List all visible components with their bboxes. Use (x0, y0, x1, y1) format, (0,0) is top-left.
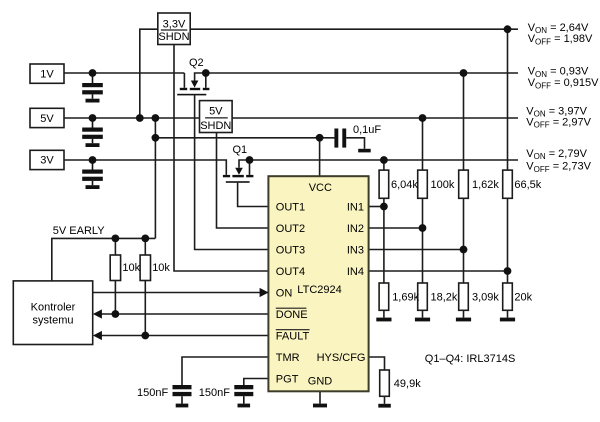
svg-text:FAULT: FAULT (276, 330, 310, 342)
ground C5 (238, 404, 251, 408)
svg-text:100k: 100k (431, 179, 455, 191)
transistor Q2 channel dashes (180, 88, 210, 90)
wire TMR to C4 (182, 357, 268, 385)
regulator U2 3,3V SHDN (158, 13, 190, 45)
junction FAULT pull-up (141, 332, 149, 340)
capacitor C1 1V bypass (82, 75, 103, 99)
junction rail4 to divider (380, 156, 388, 164)
ground C4 (176, 404, 189, 408)
junction DONE pull-up (112, 310, 120, 318)
resistor R7 1,69k (379, 283, 389, 310)
svg-text:OUT3: OUT3 (276, 244, 305, 256)
source box 1V (30, 64, 64, 83)
ground R10 (500, 318, 515, 322)
svg-text:3,3V: 3,3V (163, 18, 186, 30)
wire 5V rail (64, 117, 200, 119)
source box 5V (30, 108, 64, 127)
FAULT overline (276, 329, 310, 331)
svg-text:Q2: Q2 (189, 57, 204, 69)
node IN2 (419, 224, 427, 232)
ground R7 (376, 318, 391, 322)
junction Q1 drain (246, 156, 254, 164)
wire pull-up 10k R5 to DONE (114, 238, 116, 255)
resistor R1 6,04k (379, 170, 389, 198)
resistor R4 66,5k (503, 170, 513, 198)
svg-text:systemu: systemu (33, 315, 74, 327)
transistor Q1 channel dashes (223, 175, 254, 177)
transistor Q1 arrow stub (239, 160, 250, 168)
wire 1V rail (64, 72, 184, 74)
junction rail2 to divider (460, 69, 468, 77)
svg-text:5V: 5V (209, 106, 223, 118)
wire rail3 5V regulator output (232, 117, 518, 119)
resistor R10 20k (503, 283, 513, 310)
junction VCC line (152, 134, 160, 142)
svg-text:IN3: IN3 (347, 244, 364, 256)
wire DONE to controller (101, 313, 269, 315)
resistor R8 18,2k (418, 283, 428, 310)
svg-text:Kontroler: Kontroler (31, 301, 76, 313)
svg-text:5V EARLY: 5V EARLY (53, 225, 105, 237)
ground GND pin (313, 404, 327, 408)
DONE overline (276, 307, 307, 309)
ground C3 (86, 185, 100, 189)
svg-text:HYS/CFG: HYS/CFG (317, 352, 366, 364)
3,3V box fraction line (161, 29, 187, 31)
junction rail1 to divider (504, 25, 512, 33)
svg-text:5V: 5V (40, 113, 54, 125)
svg-text:OUT1: OUT1 (276, 201, 305, 213)
wire rail3 to 100k and IN2 divider column (422, 118, 424, 170)
node IN3 (460, 246, 468, 254)
wire rail4 to 6,04k and IN1 divider column (383, 160, 385, 170)
svg-text:20k: 20k (514, 292, 532, 304)
node IN1 (380, 203, 388, 211)
transistor Q2 gate bar (177, 94, 206, 96)
junction VCC pin node (316, 134, 324, 142)
svg-text:DONE: DONE (276, 309, 308, 321)
svg-text:ON: ON (276, 287, 293, 299)
wire rail4 switched 3V output (250, 159, 519, 161)
svg-text:150nF: 150nF (199, 387, 230, 399)
ground R8 (415, 318, 430, 322)
svg-text:GND: GND (308, 376, 333, 388)
transistor Q2 substrate arrow (191, 81, 199, 88)
svg-text:VCC: VCC (309, 182, 332, 194)
resistor R2 100k (418, 170, 428, 198)
capacitor C6 0,1uF (334, 129, 346, 148)
transistor Q1 drain wire (249, 160, 251, 175)
wire IN1 pin (369, 206, 384, 208)
junction Q2 drain (202, 69, 210, 77)
wire IN4 pin (369, 270, 508, 272)
junction 5V bypass (89, 114, 97, 122)
svg-text:IN2: IN2 (347, 223, 364, 235)
wire 5V to VCC node vertical (154, 118, 156, 238)
wire 5V EARLY line (52, 238, 156, 281)
ground R11 (378, 404, 391, 408)
wire 3,3V regulator input from 5V rail (140, 29, 158, 118)
junction 5V EARLY to R6 (141, 235, 149, 243)
wire OUT4 to 3,3V regulator SHDN (174, 45, 268, 272)
svg-text:IN4: IN4 (347, 266, 364, 278)
svg-text:OUT4: OUT4 (276, 266, 305, 278)
svg-text:3,09k: 3,09k (472, 292, 499, 304)
wire GND pin (319, 391, 321, 403)
wire PGT to C5 (244, 379, 269, 386)
wire OUT3 to Q2 gate (195, 95, 269, 249)
svg-text:SHDN: SHDN (158, 31, 189, 43)
wire OUT2 to 5V regulator SHDN (217, 133, 269, 229)
ON pin input arrowhead (260, 288, 269, 297)
transistor Q2 arrow stub (195, 73, 206, 81)
wire IN2 pin (369, 227, 423, 229)
junction 3V bypass (89, 156, 97, 164)
svg-text:6,04k: 6,04k (391, 179, 418, 191)
svg-text:49,9k: 49,9k (394, 378, 421, 390)
svg-text:10k: 10k (152, 262, 170, 274)
FAULT output arrowhead (93, 331, 102, 340)
capacitor C5 150nF (234, 385, 253, 404)
node IN4 (504, 267, 512, 275)
svg-text:0,1uF: 0,1uF (353, 124, 381, 136)
wire rail2 switched 1V output (206, 72, 518, 74)
source box 3V (30, 150, 64, 169)
DONE output arrowhead (93, 309, 102, 318)
resistor R3 1,62k (459, 170, 469, 198)
svg-text:PGT: PGT (276, 373, 299, 385)
svg-text:LTC2924: LTC2924 (297, 284, 341, 296)
ground R9 (456, 318, 471, 322)
junction rail3 to divider (419, 114, 427, 122)
controller box Kontroler systemu (13, 281, 92, 345)
svg-text:18,2k: 18,2k (431, 292, 458, 304)
wire IN3 pin (369, 249, 464, 251)
junction 5V to VCC branch (152, 114, 160, 122)
op-amp U1 LTC2924 (268, 176, 368, 391)
transistor Q1 gate bar (226, 181, 250, 183)
wire rail1 3,3V output (190, 28, 518, 30)
regulator U3 5V SHDN (200, 101, 233, 133)
ground C2 (86, 143, 100, 147)
svg-text:SHDN: SHDN (200, 120, 231, 132)
wire OUT1 to Q1 gate (238, 183, 269, 207)
resistor R5 10k (110, 255, 120, 281)
svg-text:3V: 3V (40, 155, 54, 167)
svg-text:10k: 10k (122, 262, 140, 274)
wire pull-up 10k R6 to FAULT (144, 238, 146, 255)
wire VCC line (155, 137, 334, 139)
svg-text:Q1–Q4: IRL3714S: Q1–Q4: IRL3714S (425, 353, 516, 365)
junction 5V EARLY to R5 (112, 235, 120, 243)
wire ON from controller (93, 292, 261, 294)
svg-text:1V: 1V (40, 68, 54, 80)
capacitor C2 5V bypass (82, 120, 103, 143)
wire rail1 to 66,5k and IN4 divider column (507, 29, 509, 170)
svg-text:OUT2: OUT2 (276, 223, 305, 235)
svg-text:TMR: TMR (276, 352, 300, 364)
ground C1 (86, 99, 100, 103)
wire rail2 to 1,62k and IN3 divider column (463, 73, 465, 170)
capacitor C3 3V bypass (82, 162, 103, 185)
svg-text:IN1: IN1 (347, 201, 364, 213)
5V box fraction line (205, 117, 228, 119)
svg-text:Q1: Q1 (233, 144, 248, 156)
ground C6 (358, 149, 371, 153)
transistor Q1 substrate arrow (235, 168, 243, 175)
resistor R9 3,09k (459, 283, 469, 310)
junction 1V bypass (89, 69, 97, 77)
wire VCC pin (319, 138, 321, 176)
resistor R11 49,9k (380, 370, 390, 396)
svg-text:1,69k: 1,69k (392, 292, 419, 304)
junction 5V to 3,3V regulator (136, 114, 144, 122)
wire 3V rail (64, 160, 226, 175)
capacitor C4 150nF (173, 385, 192, 404)
resistor R6 10k (140, 255, 150, 281)
wire FAULT to controller (101, 335, 269, 337)
transistor Q2 drain wire (205, 73, 207, 88)
transistor Q2 source wire (183, 73, 185, 88)
svg-text:66,5k: 66,5k (514, 179, 541, 191)
wire 0,1uF to ground (346, 138, 364, 149)
svg-text:1,62k: 1,62k (472, 179, 499, 191)
BOXES (13, 13, 232, 345)
svg-text:150nF: 150nF (137, 387, 168, 399)
wire HYS/CFG to 49,9k (369, 357, 385, 370)
